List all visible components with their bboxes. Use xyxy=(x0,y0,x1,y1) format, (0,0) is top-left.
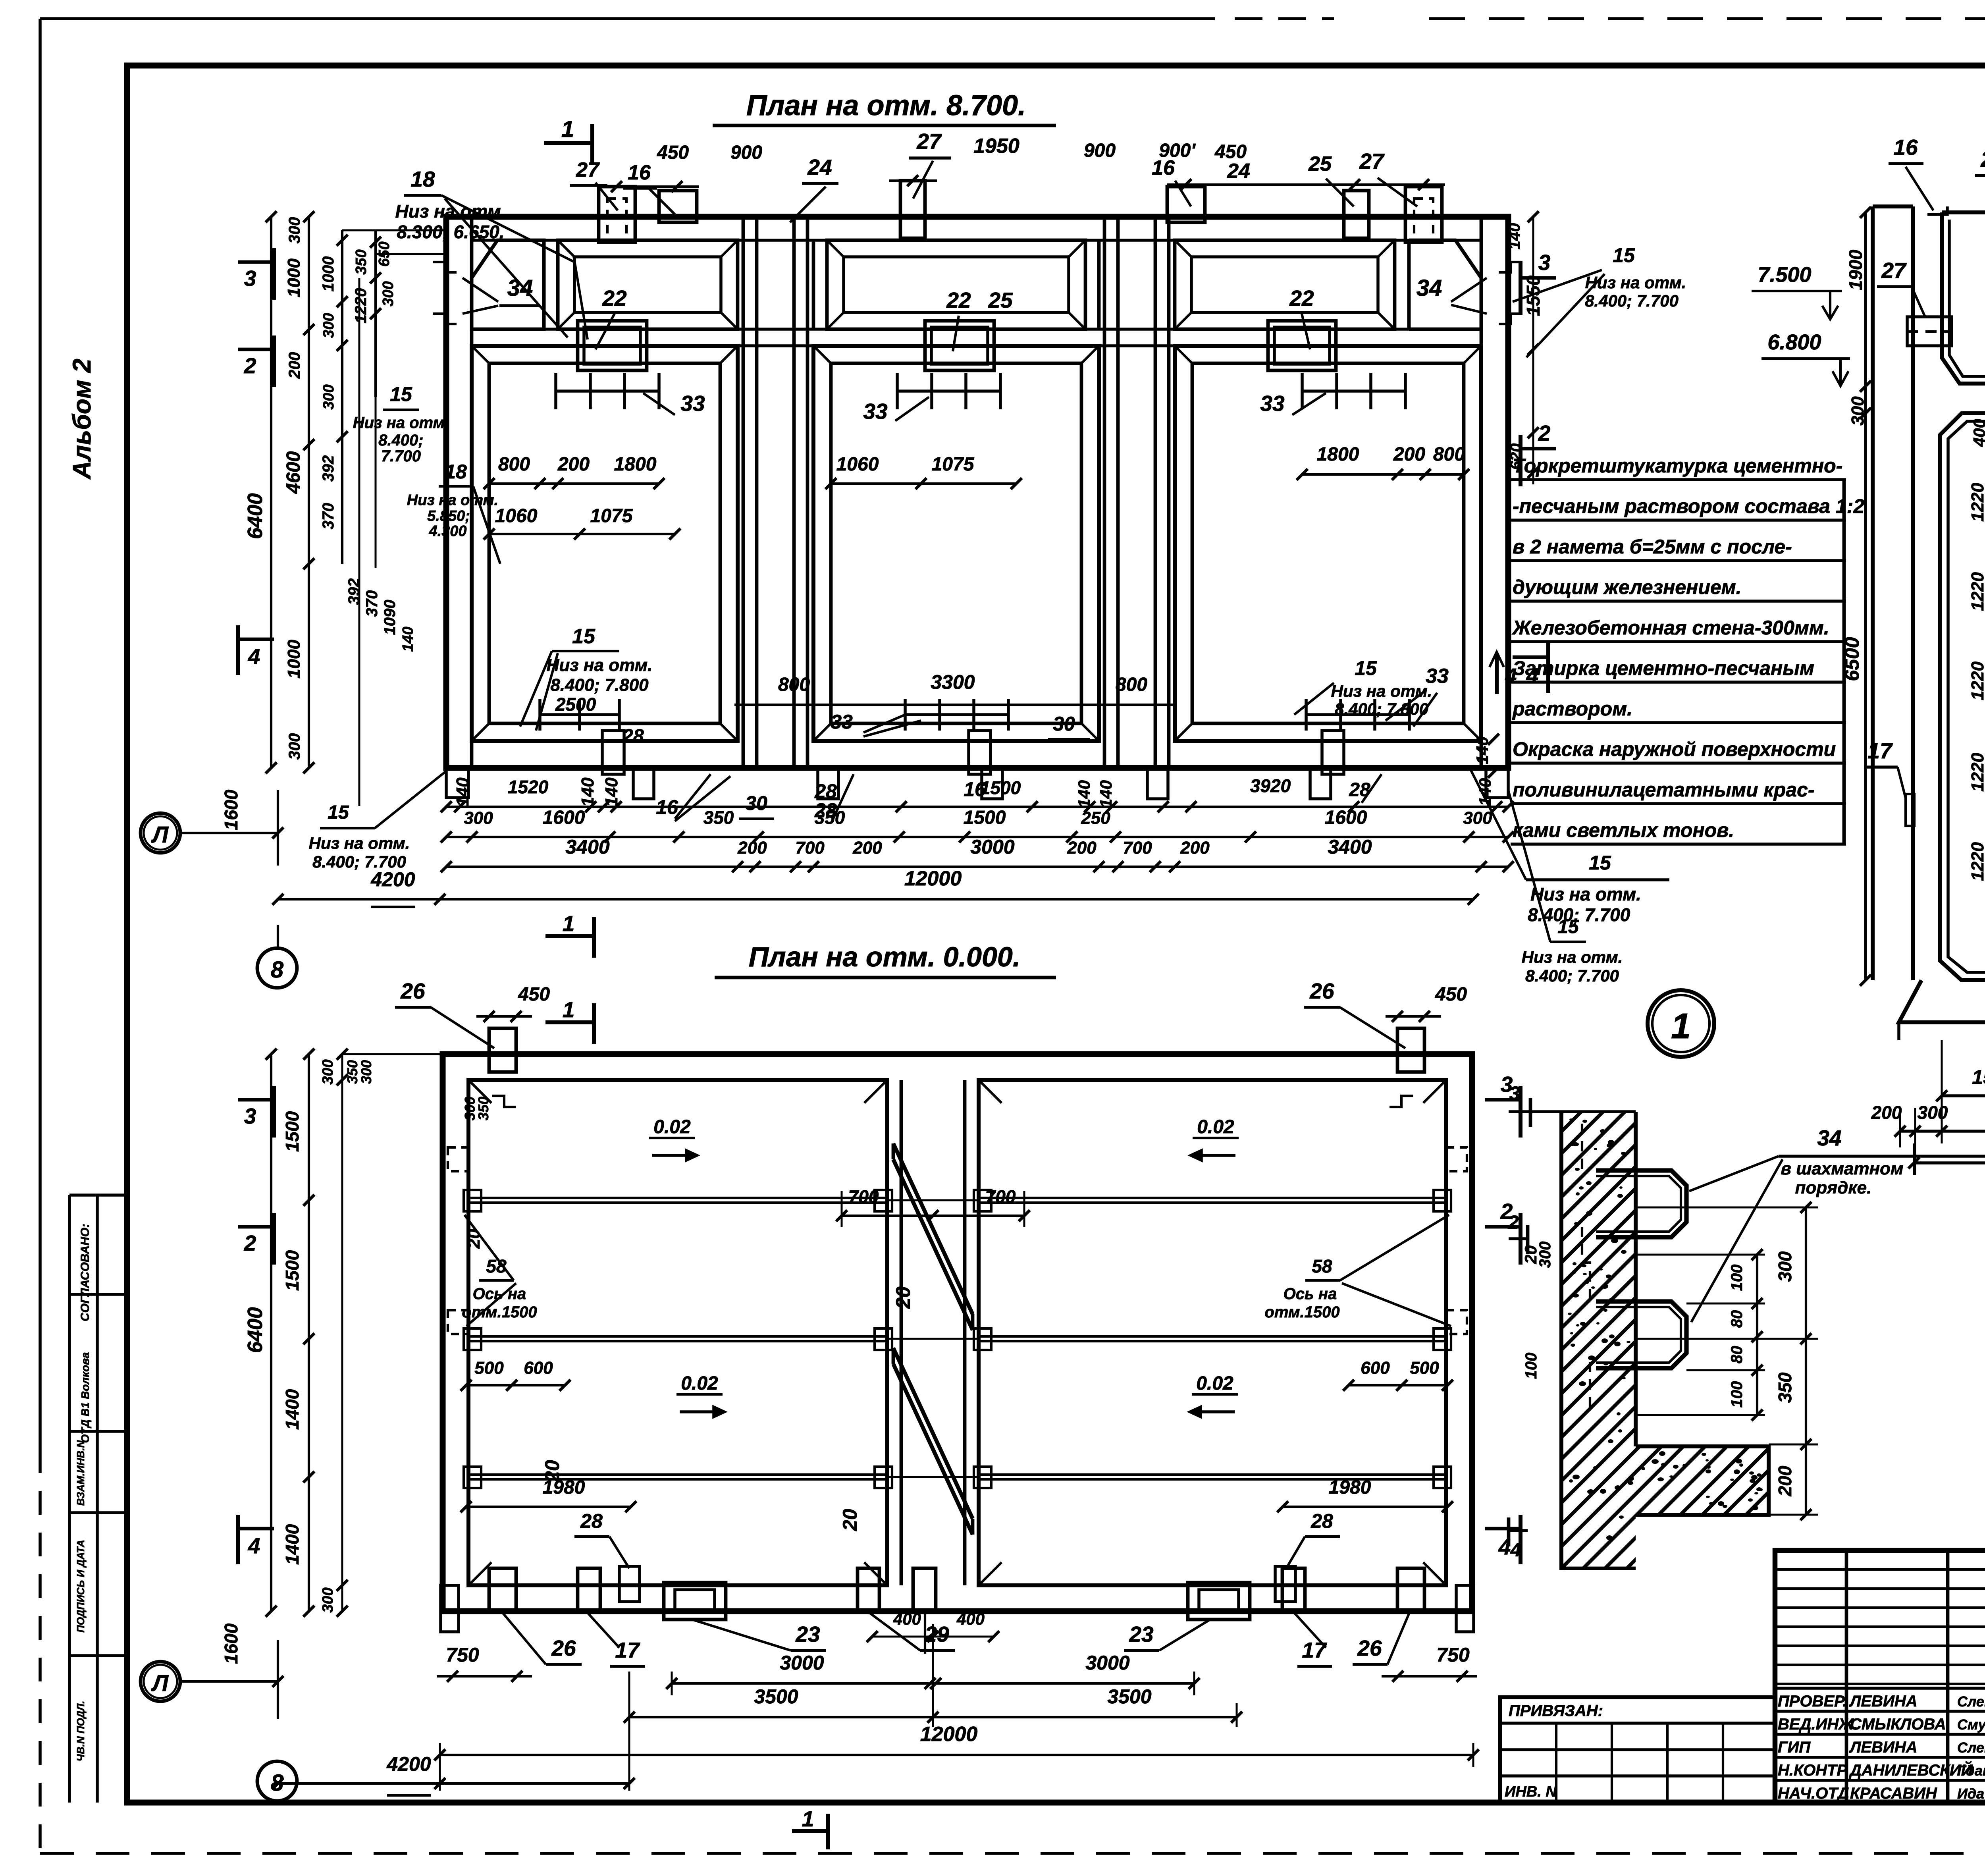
svg-text:22: 22 xyxy=(946,288,971,312)
svg-text:Гданс: Гданс xyxy=(1957,1762,1985,1779)
svg-text:СОГЛАСОВАНО:: СОГЛАСОВАНО: xyxy=(79,1224,92,1321)
svg-text:1500: 1500 xyxy=(980,777,1021,798)
svg-text:200: 200 xyxy=(1871,1102,1902,1123)
svg-text:1950: 1950 xyxy=(973,135,1019,158)
svg-text:200: 200 xyxy=(286,352,303,379)
svg-text:140: 140 xyxy=(1506,223,1523,250)
svg-text:350: 350 xyxy=(1775,1372,1795,1403)
svg-text:8.400;: 8.400; xyxy=(378,432,423,449)
svg-text:1220: 1220 xyxy=(1968,483,1985,522)
svg-text:33: 33 xyxy=(1426,665,1449,688)
svg-text:Ось на: Ось на xyxy=(473,1285,526,1303)
svg-text:1075: 1075 xyxy=(932,454,975,475)
svg-text:15: 15 xyxy=(572,625,595,648)
svg-text:16: 16 xyxy=(1152,156,1175,179)
svg-text:порядке.: порядке. xyxy=(1795,1178,1872,1197)
svg-text:1220: 1220 xyxy=(1968,661,1985,700)
svg-text:ВЗАМ.ИНВ.N: ВЗАМ.ИНВ.N xyxy=(75,1440,87,1506)
svg-text:600: 600 xyxy=(1361,1358,1390,1378)
svg-text:200: 200 xyxy=(852,838,882,858)
svg-text:23: 23 xyxy=(1129,1622,1153,1647)
svg-text:26: 26 xyxy=(400,979,425,1003)
svg-text:1500: 1500 xyxy=(282,1111,303,1152)
svg-text:2: 2 xyxy=(1538,421,1551,445)
svg-text:750: 750 xyxy=(1436,1644,1470,1666)
svg-text:15: 15 xyxy=(1355,657,1377,679)
svg-text:100: 100 xyxy=(1728,1265,1746,1291)
svg-text:15: 15 xyxy=(1589,852,1611,874)
svg-text:300: 300 xyxy=(286,733,303,760)
svg-text:22: 22 xyxy=(1980,147,1985,172)
svg-text:отм.1500: отм.1500 xyxy=(1264,1303,1339,1321)
svg-text:1: 1 xyxy=(563,997,575,1022)
svg-text:Н.КОНТР: Н.КОНТР xyxy=(1778,1762,1847,1779)
svg-text:18: 18 xyxy=(410,167,435,191)
svg-text:3400: 3400 xyxy=(565,836,609,858)
svg-text:26: 26 xyxy=(1357,1636,1382,1660)
svg-text:2: 2 xyxy=(244,1231,256,1255)
svg-text:поливинилацетатными крас-: поливинилацетатными крас- xyxy=(1513,779,1815,801)
svg-text:250: 250 xyxy=(1081,808,1110,828)
svg-text:33: 33 xyxy=(1260,391,1284,416)
svg-text:СМЫКЛОВА: СМЫКЛОВА xyxy=(1850,1716,1946,1733)
svg-text:28: 28 xyxy=(1310,1510,1333,1532)
svg-text:350: 350 xyxy=(815,807,845,828)
svg-text:3920: 3920 xyxy=(1250,775,1291,796)
svg-text:Затирка цементно-песчаным: Затирка цементно-песчаным xyxy=(1513,657,1814,679)
svg-text:6400: 6400 xyxy=(244,493,267,539)
svg-text:отм.1500: отм.1500 xyxy=(462,1303,537,1321)
svg-text:0.02: 0.02 xyxy=(653,1116,691,1138)
svg-text:80: 80 xyxy=(1728,1310,1746,1328)
svg-text:700: 700 xyxy=(795,838,825,858)
svg-text:2: 2 xyxy=(244,353,256,378)
svg-text:дующим железнением.: дующим железнением. xyxy=(1513,576,1742,598)
svg-text:8: 8 xyxy=(271,957,284,983)
svg-text:0.02: 0.02 xyxy=(1196,1373,1233,1394)
svg-text:27: 27 xyxy=(916,129,942,154)
svg-text:33: 33 xyxy=(680,391,705,416)
svg-text:300: 300 xyxy=(320,1059,336,1084)
svg-text:ВЕД.ИНЖ.: ВЕД.ИНЖ. xyxy=(1778,1716,1858,1733)
svg-text:24: 24 xyxy=(807,155,832,179)
svg-text:34: 34 xyxy=(1817,1126,1841,1150)
svg-text:1060: 1060 xyxy=(836,454,879,475)
svg-text:33: 33 xyxy=(863,399,887,424)
svg-text:17: 17 xyxy=(615,1638,640,1662)
svg-text:1000: 1000 xyxy=(320,256,337,292)
svg-text:4: 4 xyxy=(1505,665,1517,688)
svg-text:0.02: 0.02 xyxy=(681,1373,718,1394)
svg-text:3000: 3000 xyxy=(970,836,1014,858)
svg-text:Низ на отм.: Низ на отм. xyxy=(407,492,498,509)
svg-text:26: 26 xyxy=(1309,979,1334,1003)
svg-text:200: 200 xyxy=(1067,838,1097,858)
svg-text:3000: 3000 xyxy=(780,1652,824,1674)
svg-text:25: 25 xyxy=(988,288,1013,312)
svg-text:1220: 1220 xyxy=(1968,753,1985,792)
svg-text:1600: 1600 xyxy=(221,1623,241,1664)
svg-text:1: 1 xyxy=(563,911,575,936)
svg-text:Окраска наружной поверхности: Окраска наружной поверхности xyxy=(1513,738,1836,760)
svg-text:Альбом 2: Альбом 2 xyxy=(67,359,96,480)
svg-text:Ида: Ида xyxy=(1957,1785,1984,1802)
svg-text:Низ на отм.: Низ на отм. xyxy=(309,834,410,852)
svg-text:16: 16 xyxy=(1893,135,1918,160)
svg-text:6400: 6400 xyxy=(244,1307,267,1353)
svg-text:26: 26 xyxy=(551,1636,576,1660)
svg-text:1: 1 xyxy=(561,116,574,142)
svg-text:16: 16 xyxy=(628,161,651,184)
svg-text:900: 900 xyxy=(730,142,762,163)
svg-text:300: 300 xyxy=(1463,808,1492,828)
svg-text:1090: 1090 xyxy=(381,600,399,635)
svg-text:8.400; 7.800: 8.400; 7.800 xyxy=(550,675,649,695)
svg-text:300: 300 xyxy=(380,281,397,306)
svg-text:200: 200 xyxy=(1393,444,1425,465)
svg-text:1: 1 xyxy=(1671,1006,1691,1046)
svg-text:140: 140 xyxy=(602,777,621,807)
svg-text:22: 22 xyxy=(602,286,627,310)
svg-text:800: 800 xyxy=(778,674,810,695)
svg-text:1220: 1220 xyxy=(1968,842,1985,881)
svg-text:Л: Л xyxy=(151,822,169,848)
svg-text:12000: 12000 xyxy=(920,1723,978,1746)
svg-text:1980: 1980 xyxy=(1329,1477,1371,1498)
svg-text:350: 350 xyxy=(703,807,734,828)
svg-text:140: 140 xyxy=(1075,780,1093,808)
svg-text:в 2 намета б=25мм с после-: в 2 намета б=25мм с после- xyxy=(1513,536,1792,558)
svg-text:Низ на отм.: Низ на отм. xyxy=(1522,948,1623,966)
svg-text:27: 27 xyxy=(576,158,600,181)
svg-text:Низ на отм.: Низ на отм. xyxy=(1585,273,1686,292)
svg-text:1520: 1520 xyxy=(508,777,549,797)
svg-text:400: 400 xyxy=(956,1610,985,1628)
svg-text:300: 300 xyxy=(320,384,337,409)
svg-text:1075: 1075 xyxy=(590,505,633,526)
svg-text:Низ на отм.: Низ на отм. xyxy=(1530,884,1641,904)
svg-text:План на отм. 0.000.: План на отм. 0.000. xyxy=(749,941,1021,972)
svg-text:8: 8 xyxy=(271,1770,284,1796)
svg-text:3: 3 xyxy=(1538,250,1551,275)
svg-text:7.700: 7.700 xyxy=(381,447,421,465)
svg-text:20: 20 xyxy=(464,1229,484,1249)
svg-text:27: 27 xyxy=(1881,258,1907,283)
svg-text:ПРОВЕР.: ПРОВЕР. xyxy=(1778,1693,1847,1710)
svg-text:ИНВ. N: ИНВ. N xyxy=(1505,1783,1557,1800)
svg-text:392: 392 xyxy=(320,455,337,482)
svg-text:300: 300 xyxy=(1536,1242,1554,1268)
svg-text:1060: 1060 xyxy=(495,505,538,526)
svg-text:25: 25 xyxy=(1308,152,1332,175)
svg-text:Торкретштукатурка цементно-: Торкретштукатурка цементно- xyxy=(1513,455,1842,477)
svg-text:3: 3 xyxy=(244,1104,256,1128)
svg-text:15: 15 xyxy=(390,383,412,405)
svg-text:1000: 1000 xyxy=(284,258,304,297)
svg-text:Слевиц: Слевиц xyxy=(1957,1693,1985,1710)
svg-text:4: 4 xyxy=(248,644,260,669)
svg-text:500: 500 xyxy=(474,1358,504,1378)
svg-text:400: 400 xyxy=(1970,419,1985,447)
svg-text:12000: 12000 xyxy=(904,867,962,890)
svg-text:28: 28 xyxy=(580,1510,603,1532)
svg-text:раствором.: раствором. xyxy=(1512,698,1632,720)
svg-text:ПРИВЯЗАН:: ПРИВЯЗАН: xyxy=(1509,1702,1603,1720)
svg-text:Слевиц: Слевиц xyxy=(1957,1739,1985,1756)
svg-text:8.400; 7.700: 8.400; 7.700 xyxy=(1525,966,1619,985)
svg-text:1220: 1220 xyxy=(1968,572,1985,611)
svg-text:370: 370 xyxy=(363,590,381,617)
svg-text:350: 350 xyxy=(353,249,370,274)
svg-text:Низ на отм.: Низ на отм. xyxy=(547,656,653,675)
svg-text:450: 450 xyxy=(518,984,550,1005)
svg-text:100: 100 xyxy=(1728,1381,1746,1408)
svg-text:58: 58 xyxy=(1312,1256,1332,1276)
svg-text:3500: 3500 xyxy=(1107,1685,1151,1708)
svg-text:ОТД В1 Волкова: ОТД В1 Волкова xyxy=(79,1352,91,1443)
svg-text:3300: 3300 xyxy=(931,671,975,693)
svg-text:1800: 1800 xyxy=(614,454,657,475)
svg-text:Л: Л xyxy=(151,1670,169,1696)
svg-text:700: 700 xyxy=(1123,838,1152,858)
svg-text:400: 400 xyxy=(893,1610,921,1628)
svg-text:2500: 2500 xyxy=(555,694,596,715)
svg-text:450: 450 xyxy=(657,142,689,163)
svg-text:1600: 1600 xyxy=(1325,807,1367,828)
svg-text:4.300: 4.300 xyxy=(428,523,466,540)
svg-text:28: 28 xyxy=(622,726,644,747)
svg-text:ЛЕВИНА: ЛЕВИНА xyxy=(1849,1739,1918,1756)
svg-text:КРАСАВИН: КРАСАВИН xyxy=(1850,1785,1937,1802)
svg-text:Низ на отм.: Низ на отм. xyxy=(353,414,449,432)
svg-text:34: 34 xyxy=(1416,275,1442,301)
svg-text:500: 500 xyxy=(1410,1358,1439,1378)
svg-text:300: 300 xyxy=(320,313,337,338)
svg-text:100: 100 xyxy=(1522,1353,1540,1379)
svg-text:300: 300 xyxy=(286,217,303,244)
svg-text:6.800: 6.800 xyxy=(1767,330,1821,354)
svg-text:4200: 4200 xyxy=(370,868,415,891)
svg-text:8.400; 7.700: 8.400; 7.700 xyxy=(1528,904,1630,925)
svg-text:4200: 4200 xyxy=(386,1753,431,1775)
svg-text:300: 300 xyxy=(358,1060,374,1084)
svg-text:1600: 1600 xyxy=(221,789,241,830)
svg-text:8.400; 7.700: 8.400; 7.700 xyxy=(1585,291,1679,310)
svg-text:370: 370 xyxy=(320,503,337,530)
svg-text:1400: 1400 xyxy=(282,1524,303,1565)
svg-text:ЧВ.N ПОДЛ.: ЧВ.N ПОДЛ. xyxy=(75,1701,87,1762)
svg-text:450: 450 xyxy=(1435,984,1467,1005)
svg-text:200: 200 xyxy=(557,454,590,475)
svg-text:ПОДПИСЬ И ДАТА: ПОДПИСЬ И ДАТА xyxy=(75,1540,87,1633)
svg-text:1980: 1980 xyxy=(543,1477,585,1498)
svg-text:8.400; 7.700: 8.400; 7.700 xyxy=(312,852,406,871)
svg-text:34: 34 xyxy=(507,275,533,301)
svg-text:1400: 1400 xyxy=(282,1389,303,1430)
svg-text:ЛЕВИНА: ЛЕВИНА xyxy=(1849,1693,1918,1710)
svg-text:ДАНИЛЕВСКИЙ: ДАНИЛЕВСКИЙ xyxy=(1849,1760,1973,1779)
svg-text:750: 750 xyxy=(446,1644,479,1666)
svg-text:1500: 1500 xyxy=(964,807,1006,828)
svg-text:28: 28 xyxy=(1349,779,1370,800)
svg-text:700: 700 xyxy=(985,1186,1016,1207)
svg-text:1500: 1500 xyxy=(282,1250,303,1291)
svg-text:8.300; 6.650.: 8.300; 6.650. xyxy=(397,222,504,242)
svg-text:0.02: 0.02 xyxy=(1197,1116,1234,1138)
svg-text:30: 30 xyxy=(1053,713,1075,735)
svg-text:140: 140 xyxy=(1476,778,1494,806)
svg-text:План на отм. 8.700.: План на отм. 8.700. xyxy=(746,90,1026,121)
svg-text:3400: 3400 xyxy=(1328,836,1372,858)
svg-text:24: 24 xyxy=(1227,160,1250,183)
svg-text:30: 30 xyxy=(745,792,767,814)
svg-text:800: 800 xyxy=(1433,444,1465,465)
svg-text:3000: 3000 xyxy=(1085,1652,1129,1674)
svg-text:1500: 1500 xyxy=(1972,1066,1985,1088)
svg-text:1220: 1220 xyxy=(352,288,370,324)
svg-text:20: 20 xyxy=(839,1509,861,1531)
svg-text:5.850;: 5.850; xyxy=(427,508,470,524)
svg-text:1600: 1600 xyxy=(543,807,585,828)
svg-text:22: 22 xyxy=(1289,286,1314,310)
svg-text:33: 33 xyxy=(831,711,853,733)
svg-text:300: 300 xyxy=(320,1587,336,1612)
svg-text:900: 900 xyxy=(1084,140,1116,161)
svg-text:Смул: Смул xyxy=(1957,1716,1985,1733)
svg-text:3: 3 xyxy=(244,266,256,291)
svg-text:4: 4 xyxy=(1510,1540,1521,1561)
svg-text:200: 200 xyxy=(1180,838,1210,858)
svg-text:200: 200 xyxy=(737,838,767,858)
svg-text:3: 3 xyxy=(1509,1083,1520,1104)
svg-text:2: 2 xyxy=(1508,1212,1519,1233)
svg-text:300: 300 xyxy=(1918,1102,1948,1123)
svg-text:1900: 1900 xyxy=(1845,249,1866,290)
svg-text:ГИП: ГИП xyxy=(1778,1739,1811,1756)
svg-text:1800: 1800 xyxy=(1317,444,1359,465)
svg-text:в шахматном: в шахматном xyxy=(1781,1159,1903,1178)
svg-text:23: 23 xyxy=(795,1622,820,1647)
svg-text:Ось на: Ось на xyxy=(1284,1285,1337,1303)
svg-text:18: 18 xyxy=(445,461,467,483)
svg-text:800: 800 xyxy=(498,454,530,475)
svg-text:700: 700 xyxy=(848,1186,879,1207)
svg-text:600: 600 xyxy=(524,1358,553,1378)
svg-text:НАЧ.ОТД: НАЧ.ОТД xyxy=(1778,1785,1849,1802)
svg-text:27: 27 xyxy=(1359,149,1385,174)
svg-text:7.500: 7.500 xyxy=(1758,263,1811,287)
svg-text:4: 4 xyxy=(248,1533,260,1558)
svg-text:Железобетонная стена-300мм.: Железобетонная стена-300мм. xyxy=(1511,617,1829,639)
svg-text:15: 15 xyxy=(328,802,349,823)
svg-text:140: 140 xyxy=(400,627,416,652)
svg-text:80: 80 xyxy=(1728,1346,1746,1364)
svg-text:15: 15 xyxy=(1613,244,1635,266)
svg-text:ками светлых тонов.: ками светлых тонов. xyxy=(1513,819,1734,841)
svg-text:140: 140 xyxy=(1473,737,1492,764)
svg-text:800: 800 xyxy=(1116,674,1147,695)
svg-text:350: 350 xyxy=(475,1097,491,1120)
svg-text:17: 17 xyxy=(1867,738,1893,763)
svg-text:20: 20 xyxy=(892,1286,914,1309)
svg-text:140: 140 xyxy=(1097,780,1115,808)
svg-text:1000: 1000 xyxy=(284,640,304,679)
svg-text:300: 300 xyxy=(464,808,493,828)
svg-text:4600: 4600 xyxy=(283,451,304,494)
svg-text:1: 1 xyxy=(802,1807,814,1831)
svg-text:300: 300 xyxy=(1775,1251,1795,1282)
svg-text:-песчаным раствором состава 1:: -песчаным раствором состава 1:2 xyxy=(1513,495,1864,517)
svg-text:17: 17 xyxy=(1302,1638,1327,1662)
svg-text:200: 200 xyxy=(1775,1465,1795,1496)
svg-text:3500: 3500 xyxy=(754,1685,798,1708)
